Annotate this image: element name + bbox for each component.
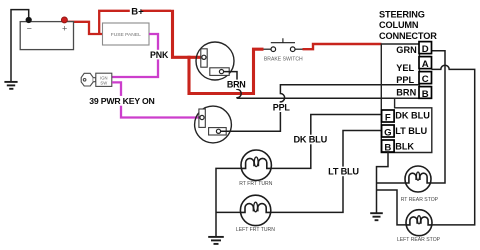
svg-text:CONNECTOR: CONNECTOR: [379, 31, 437, 41]
node B+ label: [130, 5, 144, 17]
lamp LEFT REAR STOP: [406, 210, 432, 236]
ground G2 front lamps: [208, 237, 224, 244]
brake switch: [264, 38, 304, 62]
svg-text:COLUMN: COLUMN: [379, 20, 419, 30]
svg-text:PNK: PNK: [150, 50, 169, 60]
pin C: [419, 72, 432, 85]
label STEERING COLUMN CONNECTOR: [379, 9, 437, 41]
svg-text:BRN: BRN: [396, 88, 416, 98]
wire red drop to ignition switch: [173, 10, 203, 58]
wire BRN from ignition switch with hop over red: [224, 72, 419, 99]
svg-text:STEERING: STEERING: [379, 9, 425, 19]
wire battery positive to fuse panel (red): [64, 22, 102, 34]
svg-text:PPL: PPL: [273, 102, 291, 112]
ignition switch (circle): [196, 42, 234, 80]
svg-text:39 PWR KEY ON: 39 PWR KEY ON: [89, 96, 154, 106]
svg-text:LEFT REAR STOP: LEFT REAR STOP: [397, 237, 441, 243]
svg-text:YEL: YEL: [396, 63, 414, 73]
lamp LEFT FRT TURN: [240, 195, 270, 225]
label DK BLU: [293, 135, 328, 145]
svg-text:DK BLU: DK BLU: [395, 110, 430, 120]
pin B lower: [382, 140, 395, 153]
label PPL: [273, 102, 291, 112]
wire battery negative to ground: [11, 10, 29, 82]
svg-text:LEFT FRT TURN: LEFT FRT TURN: [236, 227, 275, 233]
svg-text:B: B: [422, 89, 429, 100]
ground G3 rear lamps: [370, 213, 383, 220]
svg-text:B+: B+: [131, 7, 144, 18]
turn signal switch (circle): [195, 106, 232, 143]
wire red branch to brake switch: [189, 49, 264, 93]
svg-text:C: C: [422, 74, 429, 85]
fuse panel: [103, 23, 150, 45]
wire LT BLU: G pin to left front turn lamp: [270, 131, 381, 213]
pin D: [419, 42, 432, 55]
ignition key box IGN SW: [96, 73, 112, 86]
svg-text:DK BLU: DK BLU: [294, 135, 328, 145]
wire PNK fuse panel to ignition key (pink): [112, 34, 158, 77]
wire YEL pin A to left rear stop lamp with hop: [432, 65, 475, 225]
svg-text:A: A: [422, 59, 429, 70]
lamp RT REAR STOP: [405, 166, 431, 192]
svg-text:SW: SW: [100, 80, 107, 85]
wire B+ bus red: up from fuse, across top, down to ignition switch: [99, 11, 171, 34]
label LT BLU: [327, 167, 360, 177]
connector upper right edge: [419, 44, 421, 98]
ignition key symbol: [81, 73, 96, 86]
wire right rear stop lamp to ground rail: [377, 182, 406, 184]
svg-text:GRN: GRN: [396, 45, 417, 55]
wire PPL from turn signal switch with hop over BRN: [221, 85, 419, 132]
wire GRN pin D to right rear stop lamp: [431, 51, 446, 183]
pin B: [419, 87, 432, 100]
svg-text:FUSE PANEL: FUSE PANEL: [111, 32, 141, 38]
svg-text:BRAKE SWITCH: BRAKE SWITCH: [264, 56, 303, 62]
wire PNK ignition key to turn signal switch (pink): [112, 82, 201, 117]
svg-text:BLK: BLK: [395, 142, 414, 152]
svg-text:−: −: [27, 23, 32, 33]
wire left rear stop lamp to ground rail: [377, 190, 407, 225]
svg-text:+: +: [62, 23, 67, 33]
label BRN: [226, 79, 246, 89]
svg-text:BRN: BRN: [227, 79, 246, 89]
ground G1 battery: [4, 82, 17, 89]
svg-text:RT FRT TURN: RT FRT TURN: [239, 181, 273, 187]
svg-text:LT BLU: LT BLU: [328, 167, 359, 177]
steering column connector body lower: [381, 98, 432, 152]
pin A: [419, 57, 432, 70]
svg-text:LT BLU: LT BLU: [395, 126, 427, 136]
lamp RT FRT TURN: [241, 150, 271, 180]
battery B1: [20, 17, 73, 50]
wire red brake switch to steering column connector: [303, 44, 382, 49]
wire left front turn lamp to ground rail: [216, 211, 241, 213]
svg-text:F: F: [385, 112, 391, 123]
wire BLK pin B to rear ground: [377, 152, 389, 213]
wire DK BLU: F pin to right front turn lamp: [271, 115, 382, 169]
steering column connector body upper: [381, 44, 419, 98]
label PNK: [149, 50, 169, 60]
wire front lamps ground rail: [216, 168, 242, 236]
svg-text:B: B: [384, 142, 391, 153]
svg-text:PPL: PPL: [396, 75, 414, 85]
pin G: [382, 125, 395, 138]
svg-text:RT REAR STOP: RT REAR STOP: [401, 197, 439, 203]
svg-text:G: G: [384, 127, 391, 138]
svg-text:D: D: [422, 44, 429, 55]
pin F: [382, 110, 395, 123]
label 39 PWR KEY ON: [88, 96, 155, 106]
